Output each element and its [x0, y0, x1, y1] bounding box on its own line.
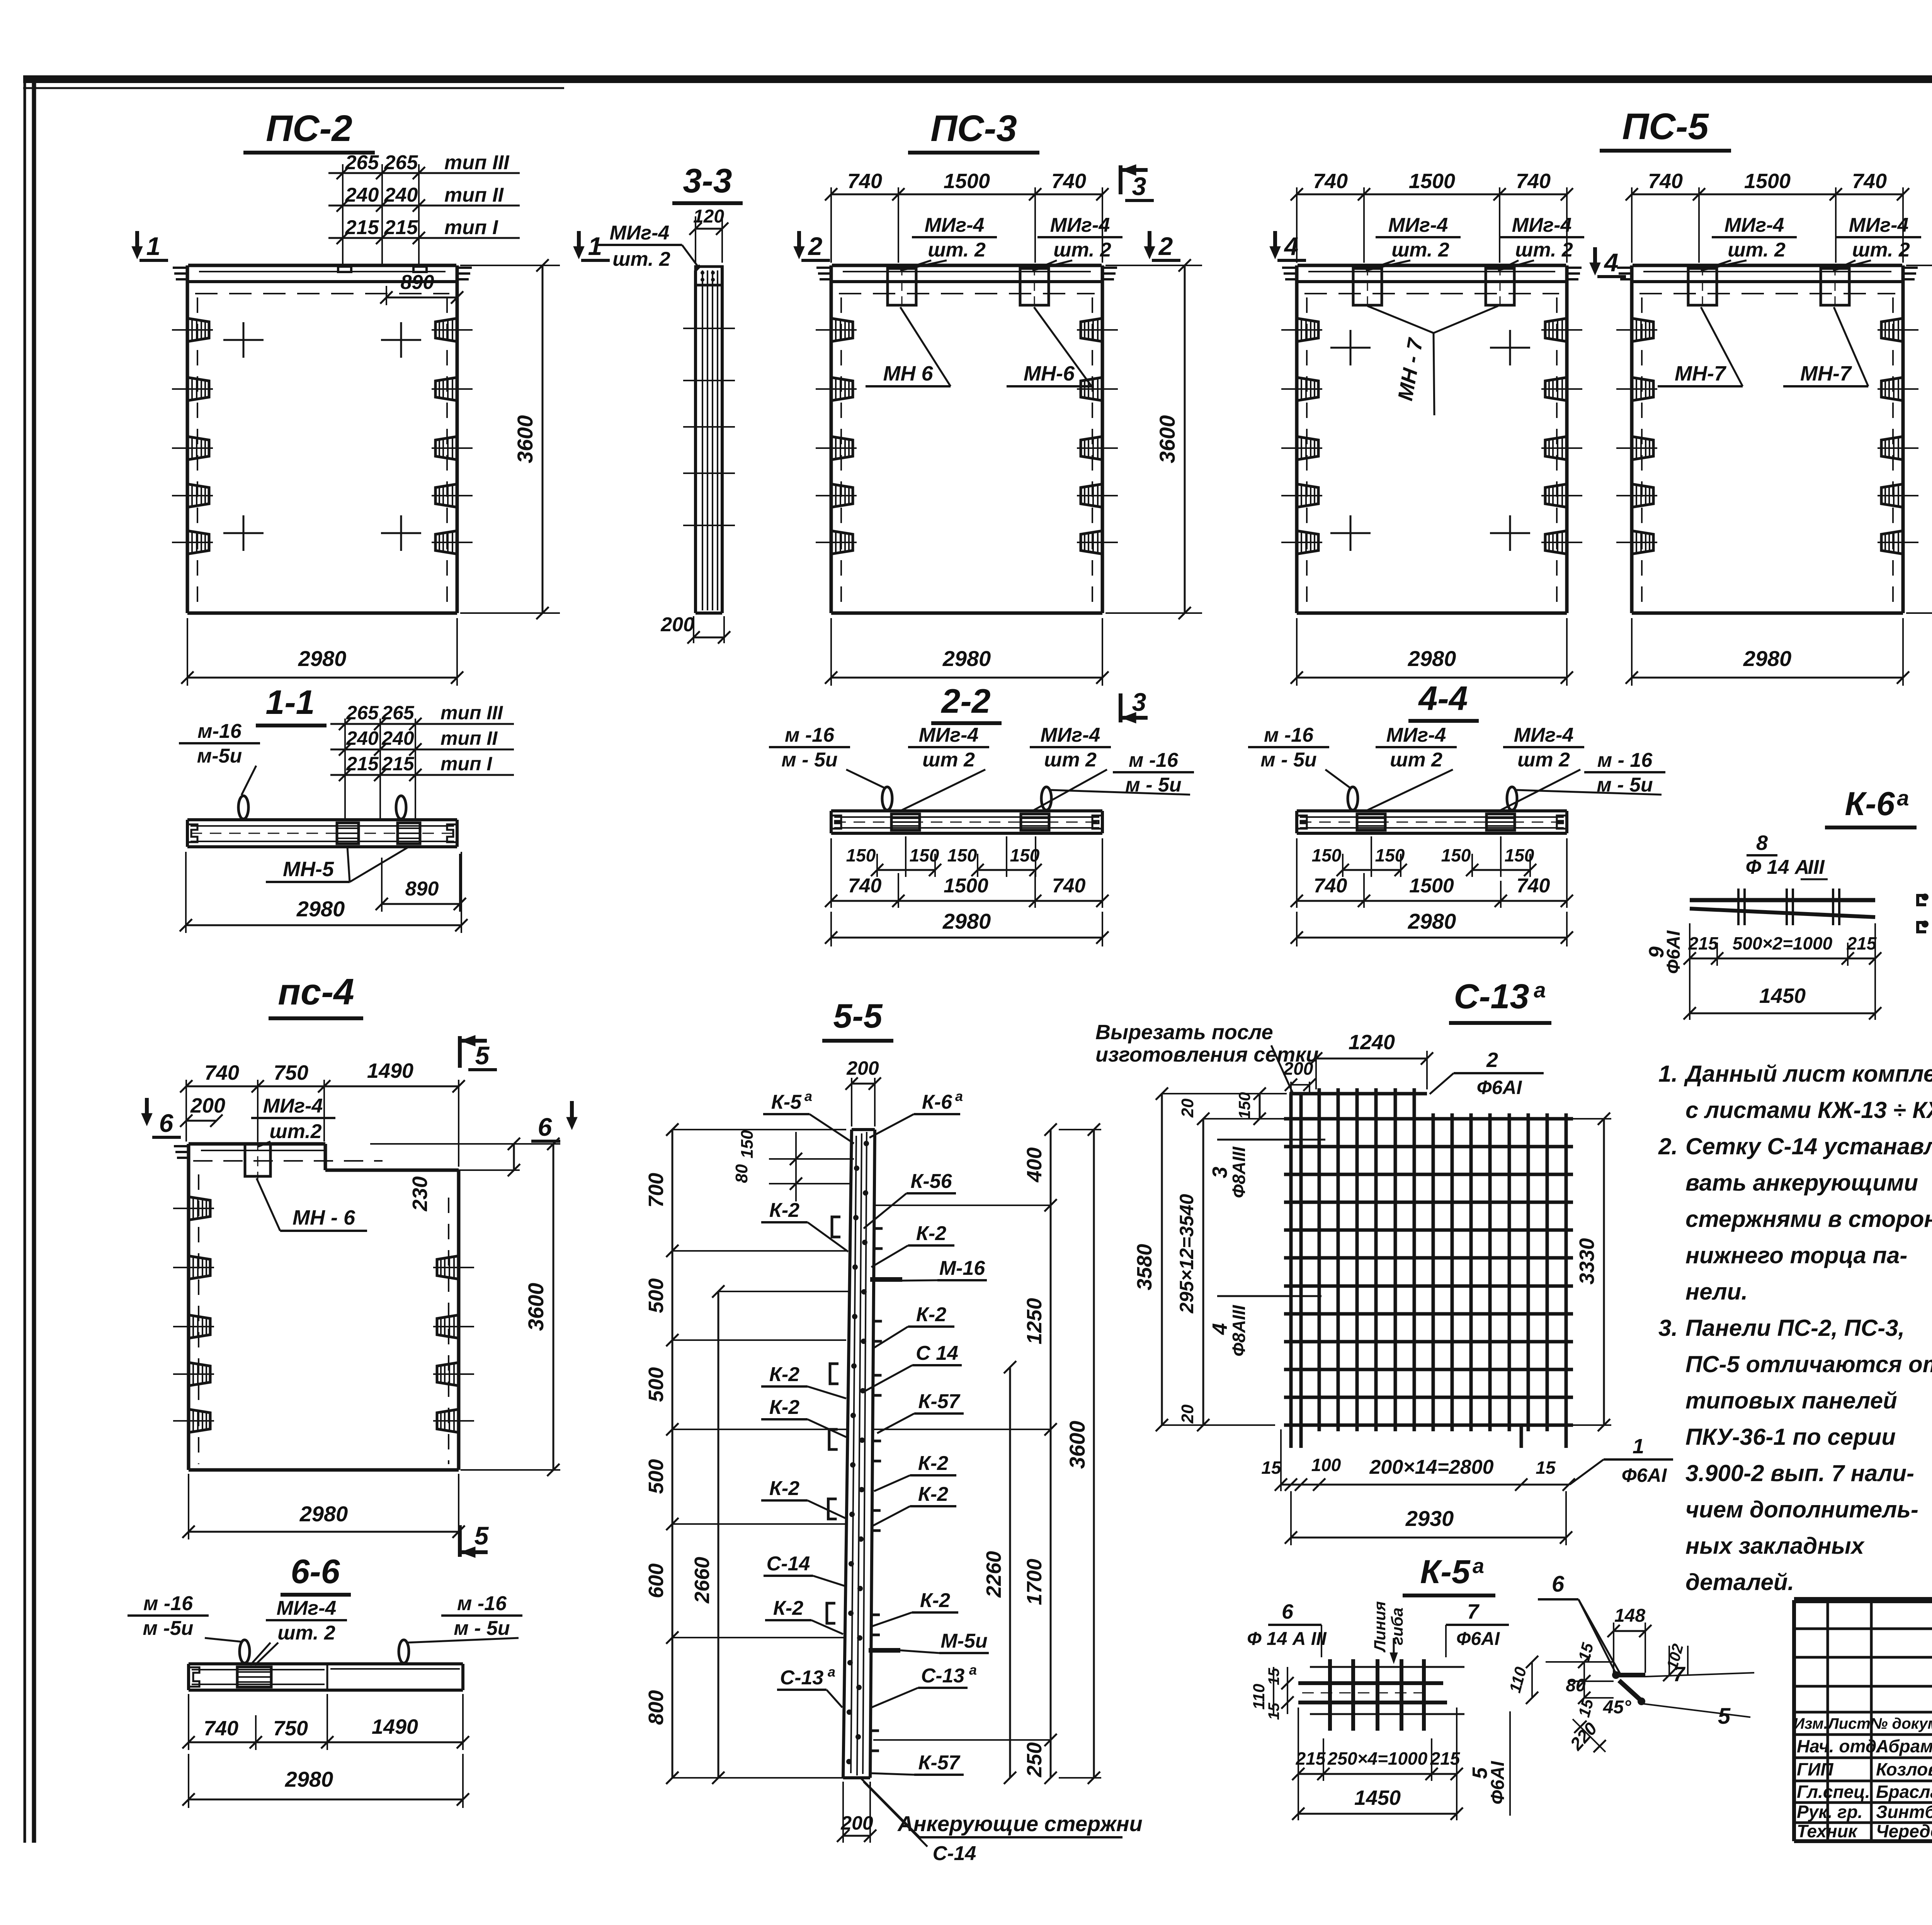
svg-text:265: 265 — [381, 702, 415, 724]
svg-text:250: 250 — [1023, 1742, 1046, 1777]
svg-text:200: 200 — [840, 1812, 873, 1834]
svg-text:МН 6: МН 6 — [883, 362, 933, 385]
К-6а end section glyphs — [1918, 895, 1926, 905]
section mark 1 left — [135, 231, 139, 253]
panel edge dashed rebar lines — [840, 297, 842, 607]
svg-text:шт. 2: шт. 2 — [928, 239, 986, 261]
5-5 column outline — [843, 1130, 852, 1778]
svg-text:МИг-4: МИг-4 — [277, 1597, 337, 1619]
section 6-6 strip — [189, 1662, 463, 1665]
svg-text:1450: 1450 — [1354, 1786, 1401, 1809]
svg-text:5: 5 — [475, 1041, 490, 1070]
svg-text:ПС-3: ПС-3 — [930, 108, 1017, 149]
6-6 embedded plate — [237, 1667, 271, 1687]
horizontal dim 2980 — [1631, 618, 1633, 686]
svg-text:250×4=1000: 250×4=1000 — [1327, 1748, 1428, 1769]
dims 150 (4-4) — [1371, 836, 1372, 877]
svg-text:150: 150 — [1235, 1092, 1253, 1119]
section mark 3 bottom — [1119, 693, 1122, 722]
svg-text:МН - 6: МН - 6 — [293, 1206, 355, 1229]
svg-text:деталей.: деталей. — [1685, 1569, 1794, 1595]
ПС-4 dim 2980 — [188, 1474, 189, 1539]
svg-text:Анкерующие стержни: Анкерующие стержни — [897, 1811, 1142, 1836]
svg-text:а: а — [804, 1088, 812, 1104]
section strip outline — [831, 809, 1102, 812]
strip left end jog — [187, 824, 197, 842]
vertical dim 3600 — [1184, 265, 1186, 613]
section mark 4 left — [1273, 231, 1277, 253]
svg-text:215: 215 — [346, 753, 379, 775]
svg-text:вать анкерующими: вать анкерующими — [1685, 1170, 1918, 1196]
svg-text:150: 150 — [1505, 845, 1534, 865]
svg-text:стержнями в сторону: стержнями в сторону — [1685, 1206, 1932, 1232]
dims 740/1500/740 (2-2) — [830, 838, 832, 908]
svg-text:а: а — [1473, 1555, 1484, 1578]
ПС-4 dim 230 — [328, 1169, 520, 1171]
3-3 dim 200 — [693, 616, 694, 643]
panel lugs left — [1632, 318, 1653, 342]
svg-text:Линия: Линия — [1371, 1601, 1389, 1653]
dim 2980 (2-2) — [830, 912, 832, 946]
svg-text:2980: 2980 — [298, 646, 347, 671]
svg-text:2980: 2980 — [299, 1502, 348, 1526]
svg-text:Козловская: Козловская — [1876, 1759, 1932, 1779]
svg-text:Панели ПС-2, ПС-3,: Панели ПС-2, ПС-3, — [1685, 1315, 1905, 1341]
panel edge dashed rebar lines — [1306, 297, 1308, 607]
svg-text:а: а — [1897, 786, 1909, 810]
panel edge teeth — [1617, 267, 1632, 269]
svg-text:м -16: м -16 — [143, 1592, 193, 1615]
svg-text:МИг-4: МИг-4 — [1041, 724, 1100, 746]
svg-text:2980: 2980 — [942, 646, 991, 671]
svg-text:740: 740 — [1648, 170, 1683, 193]
svg-text:Гл.спец.: Гл.спец. — [1797, 1782, 1870, 1802]
5-5 dim 2260 — [1009, 1367, 1011, 1778]
svg-text:шт 2: шт 2 — [1517, 749, 1570, 771]
svg-text:1500: 1500 — [1409, 875, 1454, 897]
svg-text:тип III: тип III — [440, 702, 503, 724]
К-5а dim 1450 — [1298, 1813, 1457, 1815]
svg-text:Рук. гр.: Рук. гр. — [1797, 1802, 1863, 1822]
svg-text:215: 215 — [1430, 1748, 1461, 1769]
svg-text:265: 265 — [345, 151, 379, 174]
svg-text:К-2: К-2 — [769, 1396, 799, 1419]
svg-text:200×14=2800: 200×14=2800 — [1369, 1456, 1493, 1478]
lifting loop М-16 — [1348, 787, 1358, 810]
svg-text:тип I: тип I — [444, 216, 498, 239]
С-13а dim 150 top — [1259, 1094, 1261, 1119]
sheet border left — [24, 79, 26, 1843]
svg-text:1: 1 — [1633, 1435, 1644, 1458]
3-3 dim 120 — [695, 216, 696, 263]
svg-text:215: 215 — [1847, 933, 1877, 953]
svg-text:110: 110 — [1250, 1684, 1268, 1710]
svg-text:215: 215 — [384, 216, 418, 239]
svg-text:К-2: К-2 — [769, 1363, 799, 1386]
svg-text:1250: 1250 — [1023, 1298, 1046, 1344]
ПС-2 small top plates МН-5 — [338, 267, 351, 272]
5-5 bottom dim 200 — [842, 1782, 844, 1843]
svg-text:150: 150 — [846, 845, 876, 865]
svg-text:1490: 1490 — [367, 1059, 413, 1082]
1-1 dim grid 265/240/215 — [344, 719, 346, 820]
lifting loop М-16 — [396, 796, 406, 819]
top dims 740 1500 740 — [830, 187, 832, 263]
svg-text:150: 150 — [910, 845, 939, 865]
svg-text:МИг-4: МИг-4 — [1512, 214, 1572, 236]
5-5 М-16 anchor bar — [870, 1277, 902, 1282]
svg-text:240: 240 — [381, 727, 414, 749]
svg-text:Ф6АI: Ф6АI — [1456, 1629, 1500, 1649]
svg-text:700: 700 — [645, 1173, 668, 1208]
5-5 dim 3600 right — [1093, 1130, 1095, 1778]
section mark 5 top — [458, 1036, 462, 1068]
panel lugs right — [1081, 318, 1102, 342]
svg-text:тип II: тип II — [444, 184, 504, 206]
svg-text:6: 6 — [1552, 1572, 1565, 1597]
svg-text:740: 740 — [204, 1717, 238, 1740]
svg-text:м -16: м -16 — [1264, 724, 1314, 746]
svg-text:200: 200 — [190, 1094, 225, 1117]
panel lugs right — [435, 318, 457, 342]
svg-text:м - 5и: м - 5и — [1260, 749, 1316, 771]
svg-text:740: 740 — [1313, 170, 1348, 193]
svg-text:шт. 2: шт. 2 — [1515, 239, 1573, 261]
svg-text:МИг-4: МИг-4 — [263, 1095, 323, 1117]
svg-text:200: 200 — [846, 1057, 879, 1079]
svg-text:С 14: С 14 — [916, 1342, 958, 1364]
svg-text:Ф6АI: Ф6АI — [1663, 930, 1684, 974]
svg-text:ПС-5: ПС-5 — [1622, 106, 1709, 147]
svg-text:тип II: тип II — [440, 727, 498, 749]
svg-text:К-2: К-2 — [918, 1452, 948, 1475]
svg-text:К-6: К-6 — [922, 1091, 952, 1113]
svg-text:ных закладных: ных закладных — [1685, 1533, 1865, 1559]
svg-text:215: 215 — [1688, 933, 1719, 953]
svg-text:шт. 2: шт. 2 — [1852, 239, 1910, 261]
top dims 740 1500 740 — [1631, 187, 1633, 263]
svg-text:740: 740 — [847, 170, 882, 193]
svg-text:2930: 2930 — [1405, 1506, 1454, 1531]
svg-text:МИг-4: МИг-4 — [1388, 214, 1448, 236]
svg-text:нижнего торца па-: нижнего торца па- — [1685, 1242, 1907, 1268]
svg-text:3: 3 — [1132, 172, 1146, 200]
svg-text:Ф8АIII: Ф8АIII — [1229, 1305, 1249, 1356]
panel lugs left — [187, 318, 209, 342]
svg-text:740: 740 — [204, 1061, 239, 1084]
svg-text:4: 4 — [1284, 232, 1299, 260]
svg-text:МИг-4: МИг-4 — [1849, 214, 1909, 236]
svg-text:а: а — [828, 1664, 835, 1680]
svg-text:3: 3 — [1132, 688, 1146, 716]
svg-text:М-5и: М-5и — [940, 1630, 987, 1652]
svg-text:а: а — [955, 1088, 963, 1104]
svg-text:К-56: К-56 — [910, 1170, 952, 1193]
panel lugs left — [1297, 318, 1318, 342]
centre marks ПС-2 — [223, 339, 264, 341]
svg-text:200: 200 — [660, 613, 694, 636]
svg-text:шт.2: шт.2 — [269, 1120, 321, 1143]
svg-text:шт. 2: шт. 2 — [612, 248, 670, 270]
svg-text:1500: 1500 — [944, 170, 990, 193]
svg-text:20: 20 — [1178, 1404, 1197, 1424]
svg-text:м - 5и: м - 5и — [781, 749, 837, 771]
panel lugs right — [1881, 318, 1903, 342]
svg-text:МИг-4: МИг-4 — [1386, 724, 1446, 746]
svg-text:400: 400 — [1023, 1147, 1046, 1183]
svg-text:Лист: Лист — [1827, 1715, 1871, 1732]
svg-text:С-13: С-13 — [780, 1667, 824, 1689]
section mark 1 right — [577, 231, 581, 253]
embedded plate — [1357, 814, 1385, 830]
svg-text:740: 740 — [848, 875, 882, 897]
section 3-3 strip — [694, 270, 697, 613]
svg-text:3600: 3600 — [513, 415, 537, 464]
svg-text:600: 600 — [645, 1563, 668, 1598]
svg-text:МИг-4: МИг-4 — [1725, 214, 1784, 236]
section strip outline — [1297, 809, 1567, 812]
svg-text:С-13: С-13 — [1454, 977, 1529, 1016]
svg-text:740: 740 — [1517, 875, 1550, 897]
svg-text:1500: 1500 — [1744, 170, 1791, 193]
centre marks panel 3 — [1330, 347, 1371, 349]
6-6 dims 740/750/1490 — [188, 1694, 189, 1750]
svg-text:м -5и: м -5и — [143, 1617, 194, 1640]
svg-text:1: 1 — [146, 232, 161, 260]
svg-text:м-16: м-16 — [197, 720, 242, 742]
К-6а dims 215/500x2=1000/215 — [1689, 923, 1690, 966]
svg-text:тип III: тип III — [444, 151, 510, 174]
svg-text:295×12=3540: 295×12=3540 — [1176, 1194, 1197, 1313]
svg-text:740: 740 — [1516, 170, 1551, 193]
svg-text:148: 148 — [1614, 1606, 1645, 1626]
svg-text:5: 5 — [474, 1521, 489, 1550]
panel edge teeth — [173, 267, 187, 269]
svg-text:МИг-4: МИг-4 — [925, 214, 985, 236]
bent bar dim 148 — [1613, 1623, 1614, 1673]
svg-text:МН-6: МН-6 — [1024, 362, 1075, 385]
svg-text:3-3: 3-3 — [683, 161, 732, 200]
svg-text:1240: 1240 — [1349, 1031, 1395, 1054]
mesh bars — [1284, 1117, 1573, 1121]
strip left end jog — [1297, 816, 1307, 829]
svg-text:с листами КЖ-13 ÷ КЖ-16.: с листами КЖ-13 ÷ КЖ-16. — [1685, 1097, 1932, 1123]
sheet border top — [23, 75, 1932, 83]
svg-text:МН-5: МН-5 — [283, 858, 334, 881]
svg-text:шт. 2: шт. 2 — [1053, 239, 1111, 261]
panel lugs right — [1545, 318, 1567, 342]
svg-text:нели.: нели. — [1685, 1279, 1748, 1305]
svg-text:750: 750 — [274, 1061, 308, 1084]
К-6а bars — [1690, 898, 1875, 902]
svg-text:1700: 1700 — [1023, 1559, 1046, 1605]
С-13а dim 1240 — [1315, 1051, 1317, 1089]
svg-text:4: 4 — [1604, 248, 1619, 277]
panel edge teeth — [816, 267, 831, 269]
section mark 2 right — [1148, 231, 1151, 253]
svg-text:III: III — [1808, 856, 1825, 878]
svg-text:500: 500 — [645, 1459, 668, 1494]
svg-text:3.900-2 вып. 7 нали-: 3.900-2 вып. 7 нали- — [1685, 1460, 1914, 1486]
section mark 3 top — [1119, 165, 1122, 194]
svg-text:15: 15 — [1261, 1458, 1282, 1478]
panel edge teeth — [1282, 267, 1297, 269]
svg-text:Изм.: Изм. — [1793, 1715, 1828, 1732]
svg-text:15: 15 — [1536, 1458, 1556, 1478]
3-3 top cap — [696, 267, 722, 285]
horizontal dim 2980 — [1296, 618, 1298, 686]
svg-text:1500: 1500 — [944, 875, 988, 897]
svg-text:а: а — [969, 1662, 977, 1678]
svg-text:890: 890 — [401, 271, 434, 294]
svg-text:Сетку С-14 устанавли-: Сетку С-14 устанавли- — [1685, 1133, 1932, 1159]
svg-text:Ф 14 А III: Ф 14 А III — [1247, 1629, 1327, 1649]
svg-text:Вырезать после: Вырезать после — [1095, 1021, 1273, 1044]
svg-text:20: 20 — [1178, 1098, 1197, 1118]
svg-text:Браславский: Браславский — [1876, 1782, 1932, 1802]
svg-text:К-2: К-2 — [769, 1477, 799, 1500]
section mark 5 bottom — [458, 1525, 462, 1557]
mesh bottom stubs — [1520, 1425, 1523, 1448]
svg-text:215: 215 — [345, 216, 379, 239]
embedded plate — [398, 823, 420, 844]
bent bar — [1612, 1671, 1620, 1679]
С-13а left dim 3580 — [1161, 1094, 1163, 1425]
svg-text:3600: 3600 — [1155, 415, 1179, 464]
svg-text:тип I: тип I — [440, 753, 492, 775]
svg-text:ГИП: ГИП — [1797, 1759, 1833, 1779]
panel edge dashed rebar lines — [197, 297, 198, 607]
svg-text:240: 240 — [345, 184, 379, 206]
svg-text:гиба: гиба — [1388, 1607, 1406, 1645]
svg-text:1.: 1. — [1658, 1061, 1678, 1087]
svg-text:М-16: М-16 — [939, 1257, 986, 1279]
svg-text:500×2=1000: 500×2=1000 — [1733, 933, 1833, 953]
dim 890 — [456, 286, 458, 305]
ПС-4 dim 3600 — [553, 1144, 554, 1470]
panel outline ПС-5 — [1630, 265, 1634, 613]
svg-text:ПС-2: ПС-2 — [266, 108, 352, 149]
panel outline — [1295, 265, 1299, 613]
vertical dim 3600 — [542, 265, 544, 613]
section mark 6 left — [145, 1098, 149, 1120]
horizontal dim 2980 — [187, 618, 188, 686]
svg-text:4: 4 — [1208, 1323, 1231, 1335]
lifting loop М-16 — [1041, 787, 1051, 810]
svg-text:Данный лист комплектен: Данный лист комплектен — [1684, 1061, 1932, 1087]
6-6 lifting loops — [240, 1640, 250, 1663]
svg-text:типовых панелей: типовых панелей — [1685, 1388, 1897, 1414]
svg-text:150: 150 — [1010, 845, 1040, 865]
svg-text:С-14: С-14 — [767, 1553, 810, 1575]
svg-text:МН-7: МН-7 — [1675, 362, 1727, 385]
embedded plate — [337, 823, 359, 844]
svg-text:740: 740 — [1051, 170, 1086, 193]
svg-text:500: 500 — [645, 1367, 668, 1402]
svg-text:500: 500 — [645, 1278, 668, 1313]
svg-text:2660: 2660 — [690, 1557, 714, 1604]
svg-text:ПКУ-36-1 по серии: ПКУ-36-1 по серии — [1685, 1424, 1896, 1450]
svg-text:5: 5 — [1718, 1704, 1731, 1729]
svg-text:3: 3 — [1208, 1167, 1231, 1178]
3-3 tick lines — [683, 328, 735, 329]
svg-text:80: 80 — [732, 1164, 751, 1183]
svg-text:К-5: К-5 — [1420, 1553, 1471, 1590]
svg-text:740: 740 — [1052, 875, 1086, 897]
svg-text:215: 215 — [1296, 1748, 1326, 1769]
svg-text:Ф6АI: Ф6АI — [1477, 1077, 1522, 1098]
svg-text:К-2: К-2 — [773, 1597, 803, 1619]
svg-text:а: а — [1534, 978, 1546, 1002]
svg-text:6-6: 6-6 — [291, 1552, 340, 1590]
К-5а grid — [1328, 1659, 1332, 1731]
svg-text:2980: 2980 — [285, 1767, 333, 1791]
dim 2980 (4-4) — [1296, 912, 1298, 946]
embed plates — [1353, 268, 1382, 305]
svg-text:м -16: м -16 — [457, 1592, 507, 1615]
5-5 dim 2660 — [718, 1291, 719, 1778]
svg-text:С-14: С-14 — [933, 1842, 976, 1865]
dims 150 (2-2) — [877, 834, 878, 875]
svg-text:К-2: К-2 — [916, 1303, 946, 1326]
svg-text:120: 120 — [693, 206, 724, 227]
svg-text:740: 740 — [1314, 875, 1347, 897]
horizontal dim 2980 — [830, 618, 832, 686]
6-6 left end teeth — [189, 1667, 199, 1687]
svg-text:пс-4: пс-4 — [278, 971, 354, 1013]
svg-text:2260: 2260 — [982, 1551, 1005, 1598]
svg-text:3580: 3580 — [1133, 1244, 1156, 1290]
svg-text:5-5: 5-5 — [833, 997, 883, 1035]
svg-text:К-2: К-2 — [769, 1199, 799, 1222]
panel edge dashed rebar lines — [1641, 297, 1643, 607]
ПС-2 dim grid 265/240/215 тип I-III — [342, 164, 344, 265]
svg-text:3600: 3600 — [524, 1283, 548, 1331]
ПС-5 embed plates — [1688, 268, 1717, 305]
svg-text:1450: 1450 — [1759, 984, 1806, 1008]
5-5 clips К-2 — [832, 1217, 840, 1237]
ПС-4 МИг-4 plate — [245, 1144, 270, 1176]
svg-text:45°: 45° — [1603, 1697, 1631, 1718]
svg-text:890: 890 — [405, 878, 439, 900]
5-5 rebar dots — [864, 1141, 869, 1146]
5-5 small dims 150/80 — [769, 1158, 854, 1160]
svg-text:К-2: К-2 — [920, 1589, 950, 1612]
К-5а bottom dims 215/250x4=1000/215 — [1298, 1708, 1299, 1781]
embedded plate — [1486, 814, 1515, 830]
svg-text:215: 215 — [381, 753, 415, 775]
svg-text:6: 6 — [538, 1113, 553, 1141]
bent bar dim 102 — [1668, 1646, 1670, 1675]
section strip outline — [187, 818, 457, 821]
svg-text:К-5: К-5 — [771, 1091, 802, 1113]
embedded plate — [891, 814, 920, 830]
svg-text:Абрамович: Абрамович — [1876, 1736, 1932, 1756]
svg-text:ПС-5 отличаются от: ПС-5 отличаются от — [1685, 1351, 1932, 1377]
svg-text:3330: 3330 — [1575, 1238, 1599, 1284]
strip left end jog — [831, 816, 841, 829]
svg-text:265: 265 — [384, 151, 418, 174]
svg-text:4-4: 4-4 — [1418, 679, 1468, 717]
lifting loop М-16 — [238, 796, 248, 819]
svg-text:2980: 2980 — [1408, 646, 1456, 671]
svg-text:150: 150 — [1375, 845, 1405, 865]
6-6 dim 2980 — [188, 1754, 189, 1808]
svg-text:Ф 14 А: Ф 14 А — [1746, 856, 1810, 878]
svg-text:м - 16: м - 16 — [1597, 749, 1653, 771]
bent bar left dims 15/80/110/15 — [1546, 1661, 1614, 1663]
svg-text:240: 240 — [346, 727, 379, 749]
